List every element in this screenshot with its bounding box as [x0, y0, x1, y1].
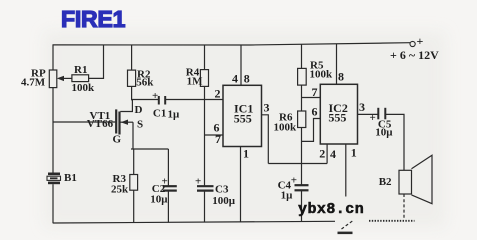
wire RP bottom lead down to B1 [52, 88, 54, 173]
svg-text:6: 6 [312, 105, 318, 119]
svg-text:+: + [291, 175, 297, 187]
svg-text:3: 3 [359, 100, 365, 114]
resistor R5 body [298, 68, 307, 85]
IC IC2 555 timer body [320, 84, 357, 144]
resistor RP body [49, 70, 57, 88]
svg-text:56k: 56k [136, 77, 154, 89]
wire VT1 drain lead [120, 100, 132, 112]
wire R1 right to top rail [89, 45, 104, 79]
svg-text:100μ: 100μ [212, 195, 236, 207]
ground [338, 232, 353, 235]
svg-text:100k: 100k [72, 82, 96, 94]
svg-text:R1: R1 [74, 64, 87, 76]
svg-text:2: 2 [215, 87, 221, 101]
wire IC1 pin1 to ground rail [240, 147, 242, 223]
speaker B2 [399, 170, 412, 194]
wire IC2 pin8 to rail [336, 44, 338, 85]
wire IC2 pin7 stub [302, 97, 321, 99]
wire R4 bottom down through pin2 node to C3 [204, 86, 206, 185]
wire R5 bottom to pin7 stub [301, 85, 303, 111]
wire B1 bottom lead [52, 184, 54, 223]
svg-text:4.7M: 4.7M [21, 77, 46, 89]
svg-text:B2: B2 [379, 176, 392, 188]
wire drain node to C1 [131, 99, 159, 101]
svg-text:8: 8 [244, 72, 250, 86]
svg-text:555: 555 [234, 112, 252, 126]
svg-text:1μ: 1μ [281, 190, 294, 202]
svg-text:25k: 25k [111, 184, 129, 196]
svg-text:555: 555 [328, 111, 346, 125]
wire S node horizontal [131, 148, 168, 150]
resistor R4 body [200, 70, 208, 87]
wire C2 top lead [167, 149, 169, 186]
svg-text:VT66: VT66 [87, 118, 114, 130]
wire gate line from RP/B1 line to VT1 gate [53, 121, 115, 123]
capacitor C2 plates [163, 185, 177, 187]
svg-text:B1: B1 [64, 172, 77, 184]
wire C5 to speaker [385, 114, 404, 170]
wire IC2 pins2,4 stub [326, 144, 328, 164]
svg-text:G: G [113, 134, 122, 146]
svg-text:C1: C1 [153, 108, 166, 120]
wire IC2 pin1 down [345, 144, 347, 197]
wire bottom rail [53, 221, 335, 223]
resistor R2 body [128, 70, 136, 86]
wire hatch ground line under speaker [369, 220, 415, 222]
svg-text:C3: C3 [215, 184, 229, 196]
svg-text:4: 4 [330, 147, 336, 161]
resistor R3 body [130, 175, 138, 191]
wire IC2 pin6 stub [302, 119, 321, 142]
wire top rail [53, 43, 410, 45]
wire R2 bottom to drain node [131, 86, 133, 100]
wire R4 line from rail [204, 45, 206, 70]
svg-text:8: 8 [338, 70, 344, 84]
resistor R1 body [72, 75, 89, 82]
svg-text:100k: 100k [274, 122, 298, 134]
svg-text:+ 6 ~ 12V: + 6 ~ 12V [390, 48, 439, 62]
svg-text:+: + [195, 176, 201, 188]
IC IC1 555 timer body [223, 85, 262, 146]
svg-text:3: 3 [264, 101, 270, 115]
wire C2 bottom lead [167, 191, 169, 223]
wire R6 bottom down through node to C4 [301, 128, 303, 186]
wire IC2 pin3 to C5 [358, 113, 379, 115]
svg-text:1M: 1M [187, 76, 204, 88]
wire source down to R3/C2 node [132, 122, 134, 149]
svg-text:10μ: 10μ [150, 194, 168, 206]
capacitor C5 plates [377, 108, 379, 120]
transistor VT1 channel bar [118, 112, 120, 135]
wire C3 bottom lead [204, 191, 206, 223]
wire IC1 pin3 to node line [262, 115, 269, 164]
svg-text:10μ: 10μ [375, 127, 393, 139]
wire C4 bottom lead [301, 190, 303, 222]
microphone B1 [48, 173, 60, 176]
capacitor C4 plates [295, 184, 309, 186]
wire R3 top lead [133, 149, 135, 175]
svg-text:7: 7 [312, 85, 318, 99]
wire speaker bottom dashed [403, 194, 405, 220]
wire RP top lead [52, 45, 54, 71]
wire RP wiper arrow to R1 [59, 77, 72, 79]
svg-text:+: + [152, 90, 158, 102]
svg-text:1: 1 [243, 147, 249, 161]
svg-text:ybx8.cn: ybx8.cn [298, 201, 364, 218]
svg-text:S: S [137, 119, 143, 131]
wire dashed link to ground [342, 220, 355, 229]
svg-text:+: + [370, 112, 376, 124]
svg-text:D: D [135, 104, 143, 116]
svg-text:1μ: 1μ [168, 109, 181, 121]
wire VT1 source lead [121, 121, 134, 123]
svg-text:100k: 100k [310, 69, 334, 81]
svg-text:1: 1 [351, 146, 357, 160]
transistor VT1 gate bar [115, 109, 117, 133]
svg-text:+: + [417, 34, 424, 48]
capacitor C3 plates [197, 185, 214, 187]
capacitor C1 plates [158, 96, 160, 105]
wire node horizontal pin3-to-IC2 pins [268, 163, 327, 165]
wire R2 line from rail [131, 45, 133, 71]
wire IC1 pin4/8 to rail [240, 45, 242, 85]
wire R5 line from rail [301, 45, 303, 69]
svg-text:2: 2 [319, 147, 325, 161]
wire C1 to IC1 pin2 [165, 99, 223, 101]
svg-text:FIRE1: FIRE1 [61, 6, 126, 32]
wire R3 bottom lead [133, 190, 135, 223]
resistor R6 body [298, 111, 306, 128]
node + terminal [410, 41, 415, 46]
wire IC1 pin6 stub [205, 134, 224, 136]
svg-text:4: 4 [232, 72, 238, 86]
svg-text:7: 7 [215, 132, 221, 146]
